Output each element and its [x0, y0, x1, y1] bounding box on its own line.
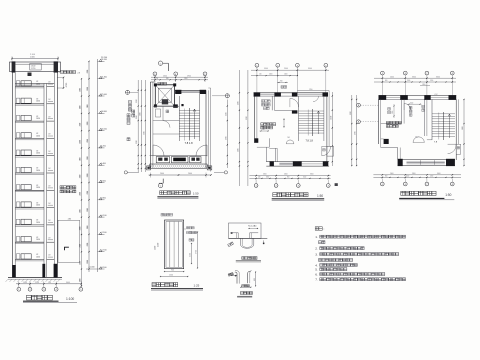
plan1: top dimension rows	[151, 76, 208, 78]
plan1: porch steps blocks (mailbox/step)	[156, 157, 169, 163]
svg-text:1:100: 1:100	[66, 297, 74, 301]
svg-text:2500: 2500	[284, 174, 288, 176]
svg-text:2450: 2450	[36, 205, 40, 207]
svg-text::: :	[324, 227, 325, 231]
svg-text:2250: 2250	[392, 110, 394, 114]
svg-text:3300: 3300	[350, 111, 352, 115]
plan3: right bay arc	[448, 144, 456, 153]
svg-text:C-2: C-2	[435, 94, 438, 96]
svg-text:1:25: 1:25	[194, 284, 200, 288]
svg-text:1500: 1500	[23, 282, 27, 284]
plan3: bottom grid bubbles	[381, 179, 383, 183]
plan1: bottom dimension line	[149, 174, 211, 176]
plan1: lower-left rooms below shaft	[153, 105, 179, 107]
svg-text:750: 750	[156, 78, 159, 80]
svg-text:2450: 2450	[36, 187, 40, 189]
svg-text:2300: 2300	[163, 75, 167, 77]
plan2: right bay arc	[322, 146, 331, 156]
plan2: left outer wall	[254, 96, 256, 143]
canopy detail1: slope label	[228, 242, 234, 247]
svg-text:6600: 6600	[462, 126, 464, 130]
plan2: bottom grid bubbles	[255, 180, 257, 184]
svg-text:900: 900	[166, 78, 169, 80]
svg-text:900: 900	[171, 270, 174, 272]
svg-text:2250: 2250	[225, 112, 227, 116]
plan2: left dimension column	[238, 70, 240, 186]
title: plan3 name with scale 1:50	[401, 191, 405, 195]
section view: shaft right wall (double line)	[43, 84, 45, 278]
section view: lower dimension chain column	[81, 79, 83, 287]
svg-text:1:50: 1:50	[317, 194, 323, 198]
plan3: inner dim marks	[393, 104, 395, 118]
svg-text:+-0.000: +-0.000	[88, 267, 94, 269]
canopy detail2: bottom dimension dark band	[240, 286, 251, 288]
plan3: top wall with columns and window C-2	[379, 95, 457, 97]
svg-text:2700: 2700	[196, 250, 198, 254]
section view: mid-height elevator label block	[60, 186, 63, 189]
notes: heading	[315, 227, 318, 230]
canopy detail2: left hooked pipe	[236, 274, 238, 284]
svg-text:2400: 2400	[390, 173, 394, 175]
plan1: entrance porch band	[150, 155, 208, 157]
svg-text:M2: M2	[36, 150, 38, 152]
svg-text:-8.500: -8.500	[101, 267, 108, 269]
title: section drawing name with scale 1:100	[27, 295, 32, 300]
svg-text:2450: 2450	[36, 135, 40, 137]
plan2: interior room label texts	[262, 100, 265, 103]
svg-text:17.600: 17.600	[101, 94, 108, 96]
plan1: top wall right segment with window	[175, 89, 206, 91]
svg-text:900: 900	[287, 177, 290, 179]
svg-text:2800: 2800	[80, 209, 82, 213]
plan3: interior vertical walls	[401, 99, 403, 123]
svg-text:2450: 2450	[36, 256, 40, 258]
svg-text:5500: 5500	[264, 68, 268, 70]
svg-text:M2: M2	[36, 237, 38, 239]
svg-text:2800: 2800	[87, 225, 89, 229]
svg-text:3.600: 3.600	[101, 180, 107, 182]
svg-text:2450: 2450	[36, 118, 40, 120]
machine room inner box with label	[30, 63, 41, 70]
svg-text:2400: 2400	[390, 76, 394, 78]
plan2: bottom window band	[279, 163, 292, 166]
svg-text:2800: 2800	[80, 244, 82, 248]
svg-text:2450: 2450	[36, 170, 40, 172]
door detail: right vertical dimension	[191, 244, 193, 264]
svg-text:2700: 2700	[355, 131, 357, 135]
plan3: left corner column lower	[384, 139, 389, 144]
svg-text:M2: M2	[36, 99, 38, 101]
svg-text:1200: 1200	[430, 176, 433, 178]
canopy detail1: right small mark	[263, 240, 265, 244]
section view: ground line and pit	[8, 277, 62, 279]
svg-text:1500: 1500	[406, 176, 409, 178]
svg-text:150: 150	[259, 74, 262, 76]
title: plan1 name with scale 1:50	[160, 191, 164, 195]
plan3: meter box text block	[386, 121, 389, 124]
svg-text:2800: 2800	[87, 122, 89, 126]
canopy detail1: slab line	[229, 237, 268, 239]
svg-text:2700: 2700	[246, 116, 248, 120]
plan2: lower interior walls	[268, 138, 270, 147]
plan3: left outer wall	[378, 99, 380, 144]
plan2: bottom wall with windows	[266, 161, 329, 163]
svg-text:1150: 1150	[309, 89, 313, 91]
svg-text:1500: 1500	[407, 80, 410, 82]
svg-text:2600: 2600	[188, 173, 192, 175]
door detail: bottom dimensions	[165, 271, 184, 273]
svg-text:2800: 2800	[80, 123, 82, 127]
svg-text:-2.900: -2.900	[101, 232, 108, 234]
section view: floor slabs x11 with lift doors	[15, 86, 44, 88]
svg-text:M2: M2	[36, 133, 38, 135]
plan2: top wall with columns and windows	[254, 92, 328, 94]
plan2: top dimension rows	[251, 69, 329, 71]
svg-text:-5.700: -5.700	[101, 250, 108, 252]
svg-text:2500: 2500	[269, 74, 273, 76]
plan3: top dimension rows	[374, 77, 456, 79]
notes: line 2	[319, 241, 322, 244]
svg-text:900: 900	[280, 81, 283, 83]
plan2: interior tiny dim marks	[260, 130, 270, 132]
svg-text:3.: 3.	[315, 253, 318, 257]
title: door detail name with scale 1:25	[152, 283, 156, 287]
svg-text:M2: M2	[36, 168, 38, 170]
plan3: right dimension column	[463, 99, 465, 166]
plan1: black dot mark	[181, 104, 183, 106]
svg-text:2.: 2.	[315, 247, 318, 251]
plan1: section cut marker C top	[158, 61, 162, 65]
canopy detail1: U trap below slab	[240, 238, 242, 244]
svg-text:2800: 2800	[80, 140, 82, 144]
svg-text:5500: 5500	[263, 174, 267, 176]
svg-text:2450: 2450	[36, 101, 40, 103]
svg-text:2250: 2250	[136, 99, 138, 103]
svg-text:M2: M2	[36, 185, 38, 187]
svg-text:23.200: 23.200	[101, 57, 108, 59]
plan2: stair treads	[298, 96, 300, 141]
svg-text:M-1: M-1	[416, 137, 419, 139]
svg-text:2800: 2800	[80, 192, 82, 196]
svg-text:11100: 11100	[330, 116, 332, 120]
svg-text:2800: 2800	[87, 208, 89, 212]
section view: pit step mark	[65, 247, 69, 250]
svg-text:3300: 3300	[237, 101, 239, 105]
elevation column ground level marks	[86, 268, 98, 270]
plan3: lower step walls	[380, 144, 382, 148]
svg-text:2800: 2800	[87, 104, 89, 108]
svg-text:2800: 2800	[80, 105, 82, 109]
svg-text:4200: 4200	[237, 148, 239, 152]
svg-text:M1: M1	[288, 137, 290, 139]
svg-text:2450: 2450	[36, 83, 40, 85]
svg-text:1500: 1500	[303, 177, 306, 179]
svg-text:1720: 1720	[31, 68, 35, 70]
annotation: 4700 vertical dimension at top right	[63, 78, 65, 89]
svg-text:20.400: 20.400	[101, 77, 108, 79]
plan3: room label texts	[388, 108, 391, 111]
section view: left shaft wall (double line)	[12, 72, 14, 278]
svg-text:2250: 2250	[35, 282, 39, 284]
plan2: balcony edge top right	[297, 90, 329, 92]
svg-text:600: 600	[254, 278, 256, 281]
plan3: interior door arc upper	[404, 104, 411, 111]
svg-text:900: 900	[385, 80, 388, 82]
svg-text:6.: 6.	[315, 273, 318, 277]
plan1: bottom-left datum mark	[124, 171, 127, 174]
canopy detail1: left upstand step	[231, 232, 233, 234]
plan2: stair center divider	[312, 109, 314, 136]
svg-text:M2: M2	[36, 81, 38, 83]
section view: machine room floor slab	[15, 83, 54, 85]
svg-text:3000: 3000	[436, 76, 440, 78]
plan2: mid door semicircle	[286, 140, 294, 144]
svg-text:2100: 2100	[190, 253, 192, 257]
svg-text:9.200: 9.200	[101, 146, 107, 148]
svg-text:2800: 2800	[87, 174, 89, 178]
svg-text:2100: 2100	[158, 243, 160, 247]
plan1: right dimension column with datum targets	[225, 94, 229, 98]
canopy detail2: right dimension	[255, 272, 257, 287]
svg-text:-0.100: -0.100	[101, 215, 108, 217]
svg-text:3300: 3300	[412, 173, 416, 175]
section view: top dimension line 2400	[12, 58, 58, 60]
plan1: wall end caps	[147, 166, 151, 170]
plan3: top grid bubbles	[381, 71, 385, 75]
svg-text:2.8: 2.8	[78, 72, 80, 74]
plan1: elevator shaft X cross	[155, 85, 174, 106]
canopy detail1: outline rectangle	[229, 223, 262, 238]
svg-text:900: 900	[385, 176, 388, 178]
plan3: stair treads	[431, 99, 433, 140]
svg-text:1260: 1260	[422, 84, 426, 86]
svg-text:2450: 2450	[36, 153, 40, 155]
plan1: left dimension columns with texts	[137, 80, 139, 172]
door detail: top label	[161, 213, 164, 216]
svg-text:12.000: 12.000	[101, 128, 108, 130]
svg-text:2800: 2800	[80, 157, 82, 161]
notes: line 5	[319, 259, 322, 262]
plan3: entrance door semicircle	[413, 137, 424, 143]
svg-text:1500: 1500	[169, 275, 173, 277]
plan1: small door arc lower-left	[163, 121, 170, 128]
svg-text:1200: 1200	[284, 74, 288, 76]
svg-text:7.: 7.	[315, 278, 318, 282]
svg-text:240: 240	[258, 177, 261, 179]
svg-text:1500: 1500	[410, 102, 413, 104]
plan1: bottom hatched wall	[149, 164, 151, 168]
svg-text:3500: 3500	[308, 68, 312, 70]
svg-text:2800: 2800	[80, 88, 82, 92]
plan2: right outer wall	[326, 96, 328, 166]
title: canopy install detail name	[240, 292, 243, 295]
plan1: top grid bubbles	[153, 72, 157, 76]
svg-text:14.800: 14.800	[101, 111, 108, 113]
plan1: entry door arcs	[153, 145, 164, 156]
svg-text:1500: 1500	[136, 115, 138, 119]
plan2: kitchen text block	[261, 123, 264, 126]
svg-text:2450: 2450	[36, 222, 40, 224]
svg-text:1:50: 1:50	[445, 193, 451, 197]
svg-text:1500: 1500	[184, 78, 188, 80]
svg-text:3500: 3500	[310, 174, 314, 176]
canopy detail2: left leader with label	[231, 275, 237, 277]
svg-text:2400: 2400	[30, 57, 36, 59]
svg-text:2800: 2800	[87, 87, 89, 91]
svg-text:1:50: 1:50	[193, 192, 199, 196]
svg-text:7400: 7400	[143, 131, 145, 135]
section view: bottom dimension line with ticks	[16, 283, 81, 285]
svg-text:1100: 1100	[262, 129, 265, 131]
svg-text:2800: 2800	[80, 175, 82, 179]
plan1: shaft corner columns	[154, 83, 157, 86]
svg-text:150: 150	[48, 282, 51, 284]
plan2: small leader dims inside	[277, 81, 288, 83]
svg-text:3000: 3000	[66, 282, 70, 284]
canopy detail2: right hooked pipe	[247, 273, 249, 283]
svg-text:1200: 1200	[430, 80, 433, 82]
plan2: second small arc	[313, 96, 319, 102]
svg-text:2100: 2100	[31, 65, 35, 67]
svg-text:2800: 2800	[87, 243, 89, 247]
svg-text:2.100: 2.100	[30, 54, 36, 56]
svg-text:M2: M2	[36, 202, 38, 204]
section view: column grid bubbles bottom	[18, 286, 20, 287]
svg-text:1800: 1800	[266, 177, 269, 179]
svg-text:2800: 2800	[87, 156, 89, 160]
svg-text:2800: 2800	[87, 70, 89, 74]
svg-text:23.200: 23.200	[101, 59, 108, 61]
plan3: stair center divider	[442, 112, 444, 140]
plan3: bottom dimension rows	[373, 174, 461, 176]
section view: foundation walls (solid black)	[12, 265, 16, 278]
plan2: right dimension column	[331, 92, 333, 166]
svg-text:7.8 1.8: 7.8 1.8	[185, 141, 193, 145]
svg-text:2800: 2800	[80, 261, 82, 265]
section view: roof slab and parapets	[10, 62, 61, 72]
svg-text:2500: 2500	[284, 68, 288, 70]
svg-text:5100: 5100	[139, 112, 141, 116]
plan1: stair flight treads	[178, 96, 180, 141]
plan1: elevator shaft walls	[155, 85, 174, 106]
plan1: rotated dim text blobs left	[129, 101, 132, 104]
svg-text:2450: 2450	[36, 239, 40, 241]
svg-text:5.: 5.	[315, 268, 318, 272]
svg-text:2800: 2800	[87, 260, 89, 264]
svg-text:M2: M2	[36, 254, 38, 256]
plan1: right outer wall and balcony edge	[205, 90, 207, 168]
svg-text:2700: 2700	[136, 140, 138, 144]
plan1: left grid bubble with cross	[125, 90, 129, 94]
plan2: stray datum square right of bottom bubbles	[335, 183, 338, 186]
svg-text:2800: 2800	[80, 227, 82, 231]
section view: right outer wall (double line)	[53, 72, 55, 278]
svg-text:6.400: 6.400	[101, 163, 107, 165]
elevation dimension column: level marker line	[97, 59, 99, 272]
svg-text:3300: 3300	[412, 76, 416, 78]
svg-text:2.800: 2.800	[101, 198, 107, 200]
annotation: elevator machine room leader	[57, 71, 60, 74]
svg-text:2700: 2700	[225, 136, 227, 140]
svg-text:1200: 1200	[155, 246, 157, 250]
svg-text:2800: 2800	[87, 191, 89, 195]
plan1: elevator machine dark box in shaft	[162, 99, 168, 104]
elevation dimension column: inner line with 2800 texts	[88, 61, 90, 272]
plan2: bottom dimension rows	[249, 175, 330, 177]
svg-text:KC1-5A4: KC1-5A4	[248, 224, 257, 227]
plan3: right outer wall	[455, 99, 457, 160]
door detail: right annotations	[187, 227, 189, 229]
plan1: elevator car box	[158, 88, 171, 102]
plan1: left outer wall	[149, 82, 151, 168]
svg-text:3000: 3000	[437, 173, 441, 175]
svg-text:7.8 1.8: 7.8 1.8	[306, 139, 314, 142]
plan1: bottom section cut marker C	[162, 179, 164, 184]
canopy detail1: right upstand step	[250, 232, 259, 234]
svg-text:M2: M2	[36, 116, 38, 118]
plan3: interior tiny horizontal dim	[408, 103, 422, 105]
plan3: left grid bubbles and dim column	[357, 103, 361, 107]
title: plan2 name with scale 1:50	[273, 193, 277, 197]
plan2: top grid bubbles	[255, 63, 259, 67]
plan2: interior wall vertical	[271, 96, 273, 110]
plan3: top small leader	[420, 85, 430, 87]
title: canopy plan detail name	[242, 257, 245, 260]
svg-text:1.: 1.	[315, 235, 318, 239]
door detail: door frame elevation	[165, 220, 184, 269]
svg-text:2900: 2900	[187, 75, 191, 77]
svg-text:2600: 2600	[160, 173, 164, 175]
plan2: interior door arc	[290, 98, 299, 107]
svg-text:M2: M2	[36, 220, 38, 222]
plan3: bottom wall with window band	[398, 158, 455, 160]
plan1: stair center divider and arrow	[189, 108, 191, 141]
svg-text:2800: 2800	[87, 139, 89, 143]
